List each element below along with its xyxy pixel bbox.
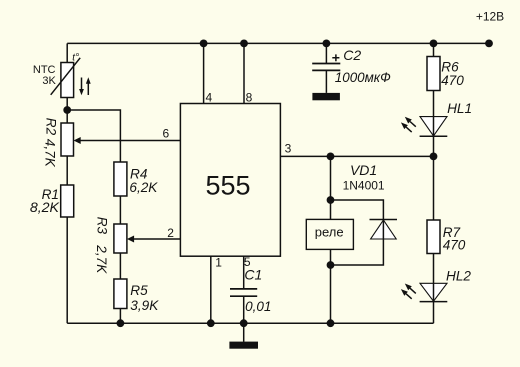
wire R5 to ground rail	[119, 309, 121, 324]
node pin8 top rail	[240, 40, 248, 48]
svg-text:1: 1	[215, 255, 222, 269]
wire R6 to HL1	[433, 91, 435, 137]
wire R3 to R5	[119, 253, 121, 279]
svg-text:VD1: VD1	[350, 162, 377, 178]
resistor R6 body	[427, 57, 440, 91]
potentiometer R2 body	[61, 123, 74, 156]
svg-text:470: 470	[443, 237, 466, 252]
svg-text:8,2K: 8,2K	[30, 200, 60, 216]
svg-text:t°: t°	[72, 53, 79, 64]
svg-text:HL1: HL1	[447, 101, 472, 116]
node pin1 rail	[207, 319, 215, 327]
node diode top	[327, 196, 335, 204]
resistor R7 body	[427, 220, 440, 254]
potentiometer R3 body	[114, 224, 127, 253]
node pin4 top rail	[200, 40, 208, 48]
LED HL2 cathode bar	[420, 301, 448, 303]
node relay rail	[327, 319, 335, 327]
capacitor C2 plates	[312, 64, 340, 71]
resistor R5 body	[114, 279, 127, 309]
diode VD1 triangle	[371, 220, 397, 239]
node R6 top rail	[430, 40, 438, 48]
svg-text:1000мкФ: 1000мкФ	[335, 70, 391, 85]
LED HL1 cathode bar	[420, 135, 448, 137]
svg-text:R5: R5	[130, 283, 148, 298]
wire pin4	[203, 43, 205, 103]
terminal +12V	[485, 40, 493, 48]
svg-text:3K: 3K	[42, 75, 56, 87]
arrow down (temperature)	[81, 78, 83, 91]
svg-text:555: 555	[205, 171, 250, 201]
wire HL2 to rail	[433, 302, 435, 324]
node R5 rail	[117, 319, 125, 327]
svg-text:470: 470	[441, 73, 464, 88]
svg-text:6,2K: 6,2K	[129, 180, 158, 195]
ground C2	[312, 93, 340, 100]
svg-text:NTC: NTC	[33, 64, 56, 76]
wire top +12V rail	[67, 42, 489, 44]
svg-text:реле: реле	[315, 224, 344, 239]
C2 plus sign	[332, 54, 339, 61]
LED HL2 triangle	[420, 283, 447, 301]
wire R7 to HL2	[433, 254, 435, 302]
wire R1 to ground rail	[66, 217, 68, 323]
thermistor diagonal stroke	[51, 58, 80, 95]
svg-text:2,7K: 2,7K	[94, 244, 109, 274]
wire HL1 to node	[433, 136, 435, 156]
wire node to R7	[433, 156, 435, 220]
wire pin5	[243, 256, 245, 289]
wire NTC to R2	[66, 98, 68, 124]
wire pin2 to R3 wiper	[133, 238, 180, 240]
svg-text:3,9K: 3,9K	[130, 298, 159, 313]
node C1 rail	[240, 319, 248, 327]
resistor R4 body	[114, 162, 127, 196]
wire pin8	[243, 43, 245, 103]
wire NTC top	[66, 43, 68, 62]
svg-text:HL2: HL2	[446, 269, 471, 284]
svg-text:8: 8	[246, 90, 253, 104]
wire C2 to ground	[325, 70, 327, 93]
wire pin6 to R2 wiper	[80, 140, 180, 142]
node diode bottom	[327, 261, 335, 269]
svg-text:3: 3	[285, 142, 292, 156]
svg-text:+12В: +12В	[476, 10, 504, 24]
node NTC/R2/R4	[63, 106, 71, 114]
wire relay column top	[330, 156, 332, 219]
svg-text:R2: R2	[43, 118, 58, 136]
wire rail to R6	[433, 43, 435, 56]
svg-text:C2: C2	[343, 47, 361, 63]
thermistor NTC 3K body	[61, 63, 74, 98]
node C2 top rail	[323, 40, 331, 48]
wire node to R4 column	[67, 110, 120, 162]
LED HL2 arrows	[410, 288, 416, 293]
svg-text:6: 6	[162, 127, 169, 141]
wire pin1	[210, 256, 212, 323]
svg-text:C1: C1	[244, 267, 262, 283]
wire R4 to R3	[119, 196, 121, 224]
capacitor C1 plates	[230, 289, 257, 296]
wire ground rail bottom	[67, 322, 433, 324]
arrow up (resistance)	[87, 84, 89, 96]
svg-text:0,01: 0,01	[245, 299, 271, 314]
svg-text:1N4001: 1N4001	[343, 178, 385, 192]
wire relay bottom	[330, 249, 332, 323]
diode VD1 cathode bar	[370, 219, 398, 221]
LED HL1 triangle	[420, 117, 447, 136]
wire diode branch top	[331, 200, 384, 220]
capacitor C2 wire from rail	[325, 43, 327, 63]
svg-text:2: 2	[167, 226, 174, 240]
svg-text:R3: R3	[95, 217, 110, 235]
wire C1 to rail	[243, 296, 245, 323]
IC U1 555 timer body	[180, 104, 280, 257]
wire diode through	[331, 220, 384, 266]
LED HL1 arrows	[410, 122, 416, 127]
svg-text:4,7K: 4,7K	[43, 139, 58, 168]
node pin3 relay column	[327, 153, 335, 161]
ground	[243, 323, 245, 342]
resistor R1 body	[61, 185, 74, 217]
wire R2 to R1	[66, 156, 68, 185]
relay box	[306, 219, 353, 249]
wire pin3	[280, 155, 433, 157]
svg-text:4: 4	[205, 90, 212, 104]
node pin3 right column	[430, 153, 438, 161]
